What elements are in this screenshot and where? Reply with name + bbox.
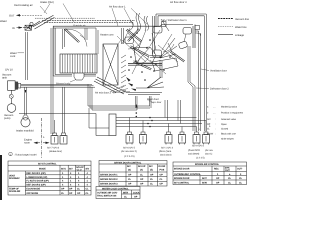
- svg-text:(Intake door): (Intake door): [49, 150, 62, 153]
- intake manifold bulb: [21, 115, 30, 127]
- svg-text:DOOR: DOOR: [159, 165, 166, 168]
- hose drop wavy pair 1: [136, 13, 141, 31]
- label heater core: [100, 33, 121, 44]
- svg-text:OP: OP: [160, 174, 164, 177]
- right Z-bend duct: [188, 82, 195, 93]
- valve labels S/V 7 8: [47, 146, 62, 153]
- solenoid valve S/V 5: [140, 132, 147, 145]
- legend water line sample: [218, 26, 247, 29]
- svg-text:S/V8: S/V8: [202, 182, 208, 185]
- right interior pipes: [188, 46, 190, 82]
- solenoid valve S/V 3: [179, 132, 186, 145]
- HVAC unit top wall: [53, 25, 193, 29]
- bundle from block: [116, 118, 206, 127]
- svg-text:(1 2 4 5): (1 2 4 5): [196, 156, 205, 159]
- solenoid valve S/V 1: [165, 132, 172, 145]
- svg-text:OP: OP: [216, 177, 220, 180]
- svg-text:....: ....: [213, 112, 216, 114]
- svg-text:S/V 7 S/V 8: S/V 7 S/V 8: [47, 146, 60, 149]
- svg-text:(6): (6): [128, 168, 131, 171]
- label defroster door 1: [165, 19, 187, 22]
- label engine room: [24, 138, 33, 144]
- water pipe pair left: [26, 32, 28, 80]
- svg-text:: Turbocharged model: : Turbocharged model: [14, 154, 37, 157]
- right lower pipe pair A: [193, 93, 195, 131]
- svg-text:COCK: COCK: [133, 191, 140, 194]
- interior crossing flap: [128, 29, 141, 42]
- svg-text:S/V CONTROL: S/V CONTROL: [174, 182, 190, 185]
- interior actuator A5: [125, 37, 134, 44]
- svg-text:S/V 9 S/V 0: S/V 9 S/V 0: [192, 144, 205, 147]
- svg-text:MODE: MODE: [39, 167, 46, 170]
- interior actuator A1: [153, 27, 162, 34]
- riser pipes into unit: [136, 96, 152, 110]
- interior duct panel B: [152, 58, 178, 71]
- junction dots interior: [128, 32, 171, 81]
- svg-text:ROOM AIR: ROOM AIR: [9, 190, 21, 193]
- svg-text:(1 2 3 4 5): (1 2 3 4 5): [124, 155, 135, 158]
- svg-text:Solenoid valve: Solenoid valve: [221, 118, 237, 121]
- svg-text:(Push FICD: (Push FICD: [188, 149, 200, 152]
- svg-text:S/V7: S/V7: [202, 177, 208, 180]
- TABLE 4 intake air control: [173, 162, 247, 185]
- svg-text:OP: OP: [207, 123, 211, 126]
- svg-text:FL-AUTO DOOR (OP): FL-AUTO DOOR (OP): [26, 180, 48, 183]
- right abbreviations list: [207, 105, 243, 140]
- partition above heater core: [122, 28, 124, 44]
- engine vacuum pipe pair: [51, 28, 53, 134]
- blower / evaporator hatched body: [60, 54, 97, 73]
- svg-text:Water: Water: [0, 20, 7, 23]
- interior arcs: [128, 42, 141, 49]
- svg-text:S/V1: S/V1: [61, 167, 67, 170]
- svg-text:(Air mix door 2): (Air mix door 2): [121, 150, 137, 153]
- enclosure inner pipe drop: [153, 16, 155, 54]
- TABLE 1 S/V at control: [8, 161, 91, 195]
- label defroster door 2: [196, 88, 229, 91]
- svg-text:WATER COCK CONTROL: WATER COCK CONTROL: [102, 187, 129, 190]
- svg-text:OUT: OUT: [9, 14, 15, 17]
- label intake door: [40, 1, 74, 22]
- svg-text:OP: OP: [69, 188, 73, 191]
- solenoid valve S/V 6: [126, 132, 133, 145]
- svg-text:Intake manifold: Intake manifold: [16, 130, 34, 133]
- svg-text:Aspi. door: Aspi. door: [151, 101, 162, 104]
- svg-text:white stripes: white stripes: [221, 137, 235, 140]
- risers to unit mid: [165, 100, 181, 124]
- blower funnel: [74, 73, 84, 80]
- svg-text:OUTSIDE-REC CONTROL: OUTSIDE-REC CONTROL: [174, 173, 202, 176]
- svg-text:(Floor (Vent.: (Floor (Vent.: [159, 150, 172, 153]
- unit bottom wall right of funnel: [84, 75, 96, 77]
- label water cock: [10, 52, 24, 58]
- interior door flap D3: [130, 46, 150, 57]
- svg-text:S/V 6 S/V 5: S/V 6 S/V 5: [123, 146, 136, 149]
- svg-text:INTAKE AIR CONTROL: INTAKE AIR CONTROL: [195, 163, 220, 166]
- svg-text:WTR: WTR: [123, 191, 128, 194]
- svg-text:OP: OP: [160, 183, 164, 186]
- low vacuum line long: [19, 114, 109, 136]
- label vacuum pump: [4, 114, 13, 120]
- svg-text:INTAKE DOOR: INTAKE DOOR: [174, 168, 190, 171]
- svg-text:S/V 10: S/V 10: [5, 69, 13, 72]
- svg-text:Recirculating air: Recirculating air: [14, 4, 33, 7]
- solenoid valve S/V 0: [203, 132, 210, 145]
- svg-text:(4): (4): [140, 168, 143, 171]
- svg-text:Vacuum line: Vacuum line: [235, 18, 250, 21]
- svg-text:OP: OP: [140, 183, 144, 186]
- svg-text:TROL SWITCH ON: TROL SWITCH ON: [97, 194, 117, 197]
- label air mix door 2: [95, 86, 130, 95]
- svg-text:OP: OP: [140, 178, 144, 181]
- interior door flap D4: [133, 61, 152, 70]
- unit bottom-left wall: [53, 75, 72, 77]
- tank outlet bundle: [21, 84, 95, 87]
- svg-text:DEF. DOOR 2 (OP): DEF. DOOR 2 (OP): [26, 183, 45, 186]
- svg-text:(5): (5): [150, 168, 153, 171]
- valve labels group 2: [159, 146, 174, 156]
- unit right wall: [193, 25, 195, 49]
- svg-text:Floor door: Floor door: [147, 98, 159, 101]
- svg-text:door) door): door) door): [160, 153, 172, 156]
- svg-text:POS: POS: [160, 168, 165, 171]
- svg-text:(Air mix: (Air mix: [205, 149, 214, 152]
- label air flow door 1: [109, 5, 147, 26]
- svg-text:OUT-: OUT-: [237, 168, 243, 171]
- svg-text:S/V: S/V: [127, 165, 131, 168]
- junction dots a: [136, 112, 153, 127]
- svg-text:Intake (Out): Intake (Out): [40, 1, 54, 4]
- valve drops: [130, 118, 207, 133]
- svg-text:AIR MIX DOOR 3: AIR MIX DOOR 3: [100, 183, 118, 186]
- svg-text:LOWER DOOR (OP): LOWER DOOR (OP): [26, 176, 47, 179]
- svg-text:Air mix door 2: Air mix door 2: [95, 91, 112, 94]
- intake manifold arrow: [24, 90, 26, 93]
- interior actuator A4: [153, 50, 162, 57]
- svg-text:OFF MODE: OFF MODE: [26, 192, 38, 195]
- heater core X-box: [103, 44, 118, 85]
- svg-text:Defroster door 1: Defroster door 1: [168, 19, 187, 22]
- svg-text:S/V: S/V: [69, 167, 73, 170]
- svg-text:and diesel): and diesel): [188, 152, 199, 155]
- svg-text:Water line: Water line: [235, 26, 247, 29]
- svg-text:S/V: S/V: [86, 167, 90, 170]
- label aspirator door: [148, 100, 162, 104]
- junction block: [109, 114, 116, 136]
- svg-text:Air flow door 1: Air flow door 1: [109, 5, 126, 8]
- svg-text:OP: OP: [61, 188, 65, 191]
- top corner box: [195, 26, 200, 30]
- svg-text:Black with one: Black with one: [221, 132, 237, 135]
- label recirculating air: [14, 4, 47, 14]
- svg-text:ECON MODE: ECON MODE: [26, 188, 40, 191]
- svg-text:S/V-OP: S/V-OP: [138, 165, 146, 168]
- svg-text:Marked junction: Marked junction: [221, 105, 238, 108]
- legend linkage sample: [218, 34, 245, 37]
- svg-text:S/V 1 S/V 3: S/V 1 S/V 3: [161, 146, 174, 149]
- turbocharged note: [9, 152, 37, 156]
- svg-text:AIR MIX DOOR 1: AIR MIX DOOR 1: [100, 174, 118, 177]
- ventilator duct pipe: [195, 31, 201, 131]
- svg-text:Open: Open: [221, 123, 227, 126]
- interior leader lines: [122, 28, 178, 74]
- svg-text:Position in equipment: Position in equipment: [221, 111, 243, 114]
- interior door flap D6: [170, 51, 185, 62]
- svg-text:AIR MIX DOOR 2: AIR MIX DOOR 2: [100, 178, 118, 181]
- svg-text:OUTSIDE AIR CON-: OUTSIDE AIR CON-: [97, 192, 118, 195]
- svg-text:AIR MIX DOOR CONTROL: AIR MIX DOOR CONTROL: [114, 161, 142, 164]
- interior door flap D2: [126, 29, 142, 42]
- vacuum tank: [8, 81, 21, 91]
- unit bottom duct diagonals: [94, 77, 126, 94]
- svg-text:CL-2: CL-2: [77, 169, 83, 172]
- hose drop wavy pair 2: [144, 16, 149, 31]
- TABLE 2 air mix door control: [99, 161, 167, 187]
- check valve: [9, 90, 13, 103]
- svg-text:OP: OP: [77, 192, 81, 195]
- svg-text:DEF. DOOR 1 (OP): DEF. DOOR 1 (OP): [26, 172, 45, 175]
- svg-text:Outside air: Outside air: [73, 25, 86, 28]
- svg-text:Ventilator door: Ventilator door: [210, 70, 227, 73]
- engine room arrows: [34, 142, 50, 144]
- svg-text:door 1): door 1): [205, 152, 213, 155]
- svg-text:cock: cock: [10, 55, 16, 58]
- svg-text:Closed: Closed: [221, 127, 229, 130]
- pipes to S/V 7 8: [55, 87, 65, 133]
- svg-text:pump: pump: [4, 117, 11, 120]
- air mix door arrows: [126, 77, 136, 91]
- water line dashed to cock: [22, 14, 42, 16]
- diagonal hose to enclosure: [161, 19, 169, 31]
- svg-text:S/V AT CONTROL: S/V AT CONTROL: [38, 162, 57, 165]
- left wall hatch ticks: [121, 55, 126, 93]
- interior flap fan right: [160, 38, 177, 58]
- svg-text:OP: OP: [128, 183, 132, 186]
- label ventilator door: [201, 69, 227, 73]
- interior actuator A2: [178, 41, 188, 49]
- svg-text:Blower body: Blower body: [56, 83, 71, 86]
- water OUT arrow: [9, 14, 21, 17]
- left edge scan bar: [0, 155, 2, 200]
- riser up arrow: [135, 104, 137, 108]
- pipe drop elbow: [150, 56, 162, 58]
- intake door flap: [65, 29, 88, 47]
- label blower body: [56, 80, 76, 86]
- svg-text:OP: OP: [134, 196, 138, 199]
- floor duct bottom wall: [126, 93, 162, 95]
- svg-text:room: room: [24, 142, 30, 145]
- interior dark double bar: [128, 64, 162, 66]
- unit inner wall: [63, 29, 65, 49]
- solenoid valve S/V 9: [193, 132, 200, 145]
- interior duct trapezoid: [134, 47, 156, 63]
- defroster duct pipe (enclosure right wall): [204, 14, 206, 131]
- engine room boundary dash-dot: [41, 118, 43, 158]
- svg-text:Heater core: Heater core: [100, 33, 114, 36]
- TABLE 3 water cock control: [96, 187, 140, 199]
- solenoid valve S/V 7: [51, 133, 58, 144]
- svg-text:Defroster door 2: Defroster door 2: [210, 88, 229, 91]
- right enclosure left wall: [156, 14, 158, 27]
- HVAC unit left wall: [53, 26, 55, 76]
- svg-text:S/V: S/V: [207, 118, 211, 121]
- svg-text:Air flow door 3: Air flow door 3: [170, 1, 187, 4]
- svg-text:S/V: S/V: [149, 165, 153, 168]
- bundle drop right of tank: [88, 84, 150, 128]
- svg-text:IN: IN: [12, 27, 15, 30]
- hose hook: [129, 21, 133, 31]
- valve labels group 3: [188, 144, 214, 159]
- svg-text:Linkage: Linkage: [235, 34, 245, 37]
- intake manifold pipe: [25, 87, 27, 115]
- legend vacuum line sample: [218, 18, 250, 21]
- recirc snorkel diagonal duct: [29, 15, 55, 29]
- interior actuator A3: [183, 28, 192, 35]
- svg-text:OP: OP: [216, 182, 220, 185]
- unit mid wall segments: [85, 28, 87, 40]
- interior link rods: [128, 33, 186, 55]
- right enclosure top wall: [156, 14, 206, 16]
- partition mid right: [160, 60, 162, 78]
- vacuum pump: [7, 104, 16, 113]
- solenoid valve S/V 8: [60, 133, 67, 144]
- svg-text:OP: OP: [128, 174, 132, 177]
- svg-text:INTAKE DOOR: INTAKE DOOR: [174, 177, 190, 180]
- svg-text:ROOM/AC: ROOM/AC: [9, 177, 20, 180]
- svg-text:....: ....: [213, 106, 216, 108]
- svg-text:REC: REC: [214, 168, 219, 171]
- water IN arrow: [12, 26, 23, 29]
- svg-text:OUT: OUT: [225, 169, 230, 172]
- svg-text:tank: tank: [2, 77, 8, 80]
- water cock symbol: [23, 21, 40, 30]
- svg-text:B/OW: B/OW: [207, 132, 214, 135]
- floor door radiating flap: [136, 77, 164, 88]
- defroster valve symbol: [162, 20, 167, 27]
- valve labels group 1: [121, 146, 137, 158]
- top vacuum dashed bundle: [35, 18, 135, 22]
- svg-text:OP: OP: [69, 192, 73, 195]
- label vacuum tank: [2, 73, 11, 79]
- svg-text:OP: OP: [150, 174, 154, 177]
